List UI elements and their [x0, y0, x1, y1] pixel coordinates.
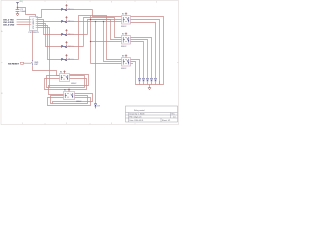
node junction — [17, 7, 18, 8]
svg-text:3: 3 — [111, 123, 112, 125]
svg-text:100nF: 100nF — [20, 11, 26, 13]
capacitor C1 — [16, 9, 27, 14]
svg-text:2: 2 — [66, 123, 67, 125]
wire switch to relay K4 — [33, 65, 60, 75]
wire bundle to relays — [67, 10, 122, 64]
VCC power flag — [16, 1, 23, 4]
wire row4 out — [67, 46, 84, 48]
ground — [16, 14, 19, 16]
svg-text:CN1-5 GND: CN1-5 GND — [3, 24, 15, 26]
resistor R3 — [62, 29, 75, 36]
relay K3 — [121, 54, 131, 70]
svg-text:K3: K3 — [122, 56, 124, 58]
svg-text:Sheet: 1/1: Sheet: 1/1 — [162, 119, 170, 122]
svg-text:Date: 2014-03-11: Date: 2014-03-11 — [130, 119, 144, 122]
wire row3 out — [67, 34, 88, 36]
wire relay outputs nested — [131, 17, 164, 79]
diode D4 — [150, 78, 152, 81]
svg-text:Rev: Rev — [172, 114, 175, 116]
page border frame — [1, 1, 179, 125]
svg-text:G5V-2: G5V-2 — [121, 26, 126, 28]
relay K2 — [121, 32, 131, 48]
wire right vertical to diode D9 — [95, 22, 97, 104]
diode D3 — [146, 78, 148, 81]
wire connector to IC — [17, 20, 30, 25]
diode D2 — [142, 78, 144, 81]
svg-text:2: 2 — [66, 2, 67, 4]
svg-text:D9: D9 — [97, 105, 99, 107]
svg-text:K5: K5 — [64, 90, 66, 92]
svg-text:Drawn by: J. Smith: Drawn by: J. Smith — [130, 113, 145, 116]
ground flag — [148, 88, 151, 90]
wire IC bottom to switch — [32, 31, 34, 61]
svg-text:K1: K1 — [122, 14, 124, 16]
wire VCC down — [17, 4, 19, 9]
diode D1 — [138, 78, 140, 81]
svg-text:Relay control: Relay control — [134, 109, 145, 112]
svg-text:G5V-2: G5V-2 — [71, 83, 76, 85]
diode D9 — [94, 104, 96, 109]
svg-text:PIC12F675: PIC12F675 — [29, 32, 40, 34]
svg-text:PIC12F675: PIC12F675 — [33, 18, 35, 29]
svg-text:1: 1 — [22, 123, 23, 125]
IC U1 microcontroller — [29, 17, 40, 35]
svg-text:K2: K2 — [122, 34, 124, 36]
wire row5 out — [67, 59, 79, 61]
relay K5 — [64, 88, 82, 103]
svg-text:K4: K4 — [60, 72, 62, 74]
svg-text:G5V-2: G5V-2 — [76, 101, 81, 103]
relay K4 — [60, 70, 77, 85]
diode D5 — [154, 78, 156, 81]
title block — [126, 106, 178, 122]
svg-text:File: relays.sch: File: relays.sch — [130, 116, 142, 118]
svg-text:1.0: 1.0 — [173, 116, 176, 118]
resistor R1 — [62, 4, 75, 11]
resistor R4 — [62, 41, 75, 48]
node junctions — [90, 19, 104, 42]
wire row1 out — [67, 9, 93, 11]
svg-text:G5V-2: G5V-2 — [121, 68, 126, 70]
resistor R5 — [62, 54, 75, 61]
wire diode rail join — [136, 78, 164, 88]
relay K1 — [121, 12, 131, 28]
wire loops relay K5 — [48, 94, 93, 106]
svg-text:4: 4 — [156, 2, 157, 4]
connector net labels — [3, 19, 15, 26]
wire loops relay K4 — [45, 75, 89, 95]
svg-text:G5V-2: G5V-2 — [121, 46, 126, 48]
switch SW1 reset — [8, 60, 39, 66]
wire branch to IC — [18, 8, 36, 17]
svg-text:3: 3 — [111, 2, 112, 4]
resistor R2 — [62, 16, 75, 23]
svg-text:SW-RESET: SW-RESET — [8, 63, 20, 65]
wire IC pin staircase — [38, 10, 62, 88]
